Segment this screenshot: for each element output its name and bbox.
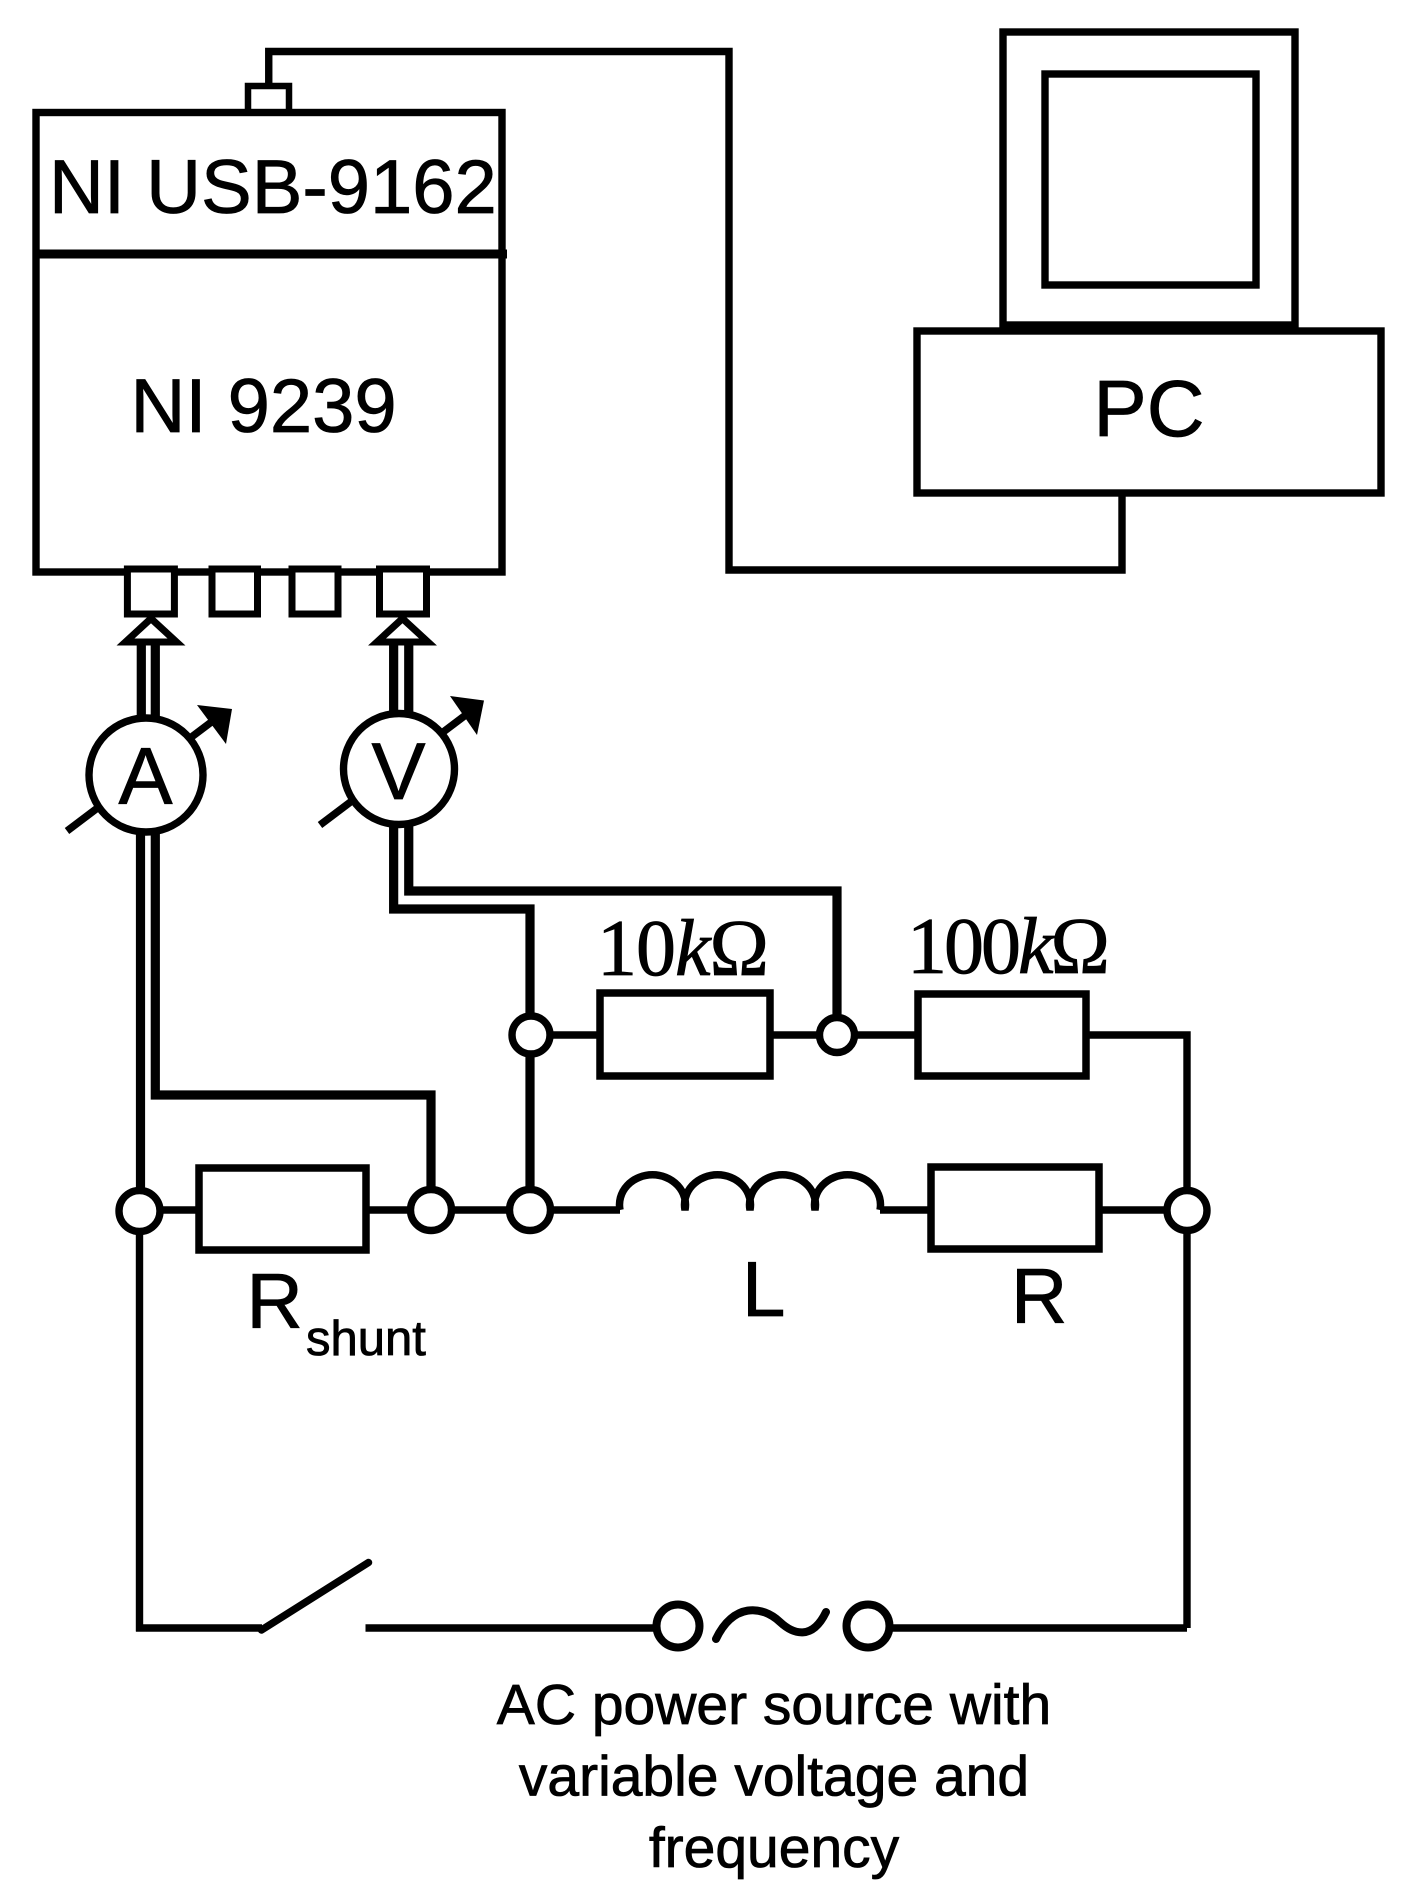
- svg-text:shunt: shunt: [306, 1312, 426, 1366]
- svg-text:PC: PC: [1093, 364, 1204, 453]
- svg-text:100kΩ: 100kΩ: [907, 903, 1107, 991]
- svg-text:A: A: [118, 732, 172, 822]
- svg-text:variable voltage and: variable voltage and: [519, 1745, 1029, 1809]
- svg-text:R: R: [247, 1257, 303, 1345]
- svg-text:NI USB-9162: NI USB-9162: [49, 145, 497, 230]
- svg-text:L: L: [742, 1245, 785, 1333]
- svg-text:10kΩ: 10kΩ: [597, 905, 768, 993]
- svg-text:frequency: frequency: [649, 1816, 900, 1880]
- svg-text:V: V: [371, 727, 425, 817]
- svg-text:NI 9239: NI 9239: [131, 364, 397, 449]
- svg-text:AC power source with: AC power source with: [497, 1673, 1051, 1737]
- svg-text:R: R: [1011, 1252, 1067, 1340]
